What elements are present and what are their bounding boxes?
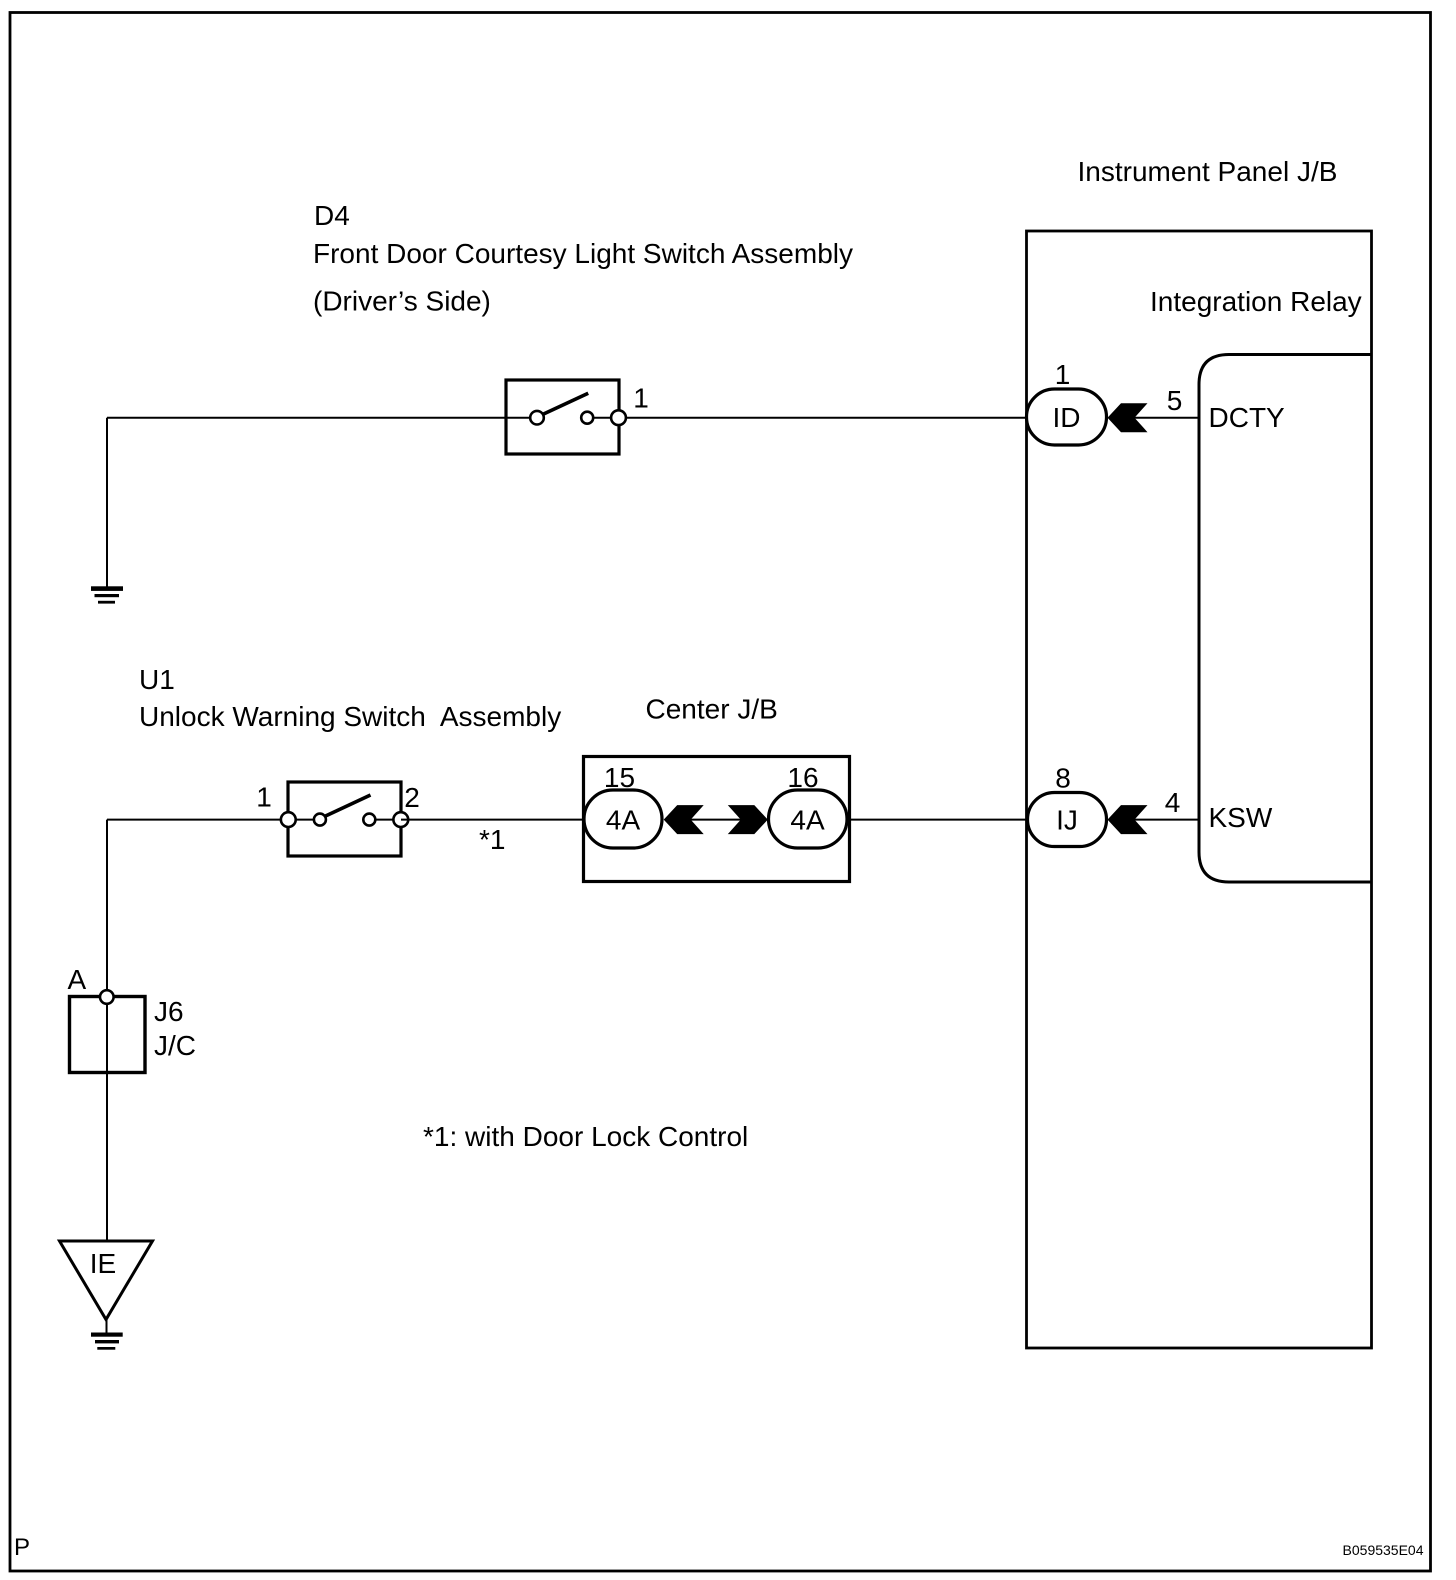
switch U1 (unlock warning switch) [281,782,408,856]
connector arrow (left, at 15) [664,805,704,834]
svg-text:U1: U1 [139,664,175,695]
connector arrow at ID [1108,403,1148,432]
svg-text:Integration Relay: Integration Relay [1150,286,1362,317]
svg-text:(Driver’s Side): (Driver’s Side) [313,286,491,317]
svg-text:1: 1 [1055,359,1071,390]
svg-text:J/C: J/C [154,1030,196,1061]
Center J/B box [584,757,850,882]
svg-text:J6: J6 [154,996,184,1027]
ground symbol (lower) [91,1333,123,1350]
fuse 4A oval (16) [769,790,848,848]
svg-text:Center J/B: Center J/B [646,694,778,725]
svg-text:*1: *1 [479,824,505,855]
wire: Center J/B to IJ terminal [850,819,1028,821]
svg-text:DCTY: DCTY [1209,402,1286,433]
wire: switch D4 pin 1 to ID terminal [619,417,1027,419]
svg-text:IJ: IJ [1056,805,1078,836]
fuse 4A oval (15) [584,790,662,848]
integration relay outline (rounded) [1199,355,1372,883]
ground symbol (upper) [91,586,123,603]
svg-text:4: 4 [1165,787,1181,818]
svg-text:P: P [14,1534,30,1561]
wire between arrows [690,819,741,821]
wire: ground riser to switch D4 [107,417,506,419]
svg-text:16: 16 [787,762,818,793]
wire: U1 pin1 to left riser [107,819,288,821]
junction J6 box [70,997,146,1073]
wire: vertical to ground [106,418,108,587]
wire: U1 pin2 to Center J/B [401,819,584,821]
switch D4 (front door courtesy light switch) [506,380,626,454]
ground triangle IE [60,1241,153,1320]
svg-text:4A: 4A [790,805,825,836]
svg-text:*1: with Door Lock Control: *1: with Door Lock Control [423,1121,748,1152]
Instrument Panel J/B box [1027,231,1372,1348]
lever [543,393,589,414]
junction circle at A [100,990,114,1004]
svg-text:Front Door Courtesy Light Swit: Front Door Courtesy Light Switch Assembl… [313,238,853,269]
wire: triangle to ground [106,1320,108,1334]
svg-text:1: 1 [256,782,272,813]
svg-text:ID: ID [1053,402,1081,433]
svg-text:4A: 4A [606,805,641,836]
svg-text:A: A [68,964,87,995]
svg-text:1: 1 [633,383,649,414]
connector arrow (right, at 16) [728,805,768,834]
terminal ID oval [1027,389,1107,445]
svg-text:5: 5 [1167,385,1183,416]
svg-text:B059535E04: B059535E04 [1343,1542,1424,1558]
wire: arrow to relay KSW [1134,819,1199,821]
svg-text:KSW: KSW [1209,802,1273,833]
svg-text:D4: D4 [314,200,350,231]
wire: arrow to relay DCTY [1134,417,1199,419]
svg-text:Instrument Panel J/B: Instrument Panel J/B [1078,156,1338,187]
svg-text:15: 15 [604,762,635,793]
svg-text:Unlock Warning Switch Assembl: Unlock Warning Switch Assembly [139,701,561,732]
lever [325,795,371,816]
wire: left riser down through J6 to IE [106,820,108,1241]
svg-text:2: 2 [404,782,420,813]
connector arrow at IJ [1108,805,1148,834]
terminal IJ oval [1028,793,1107,847]
svg-text:IE: IE [90,1248,116,1279]
svg-text:8: 8 [1055,763,1071,794]
